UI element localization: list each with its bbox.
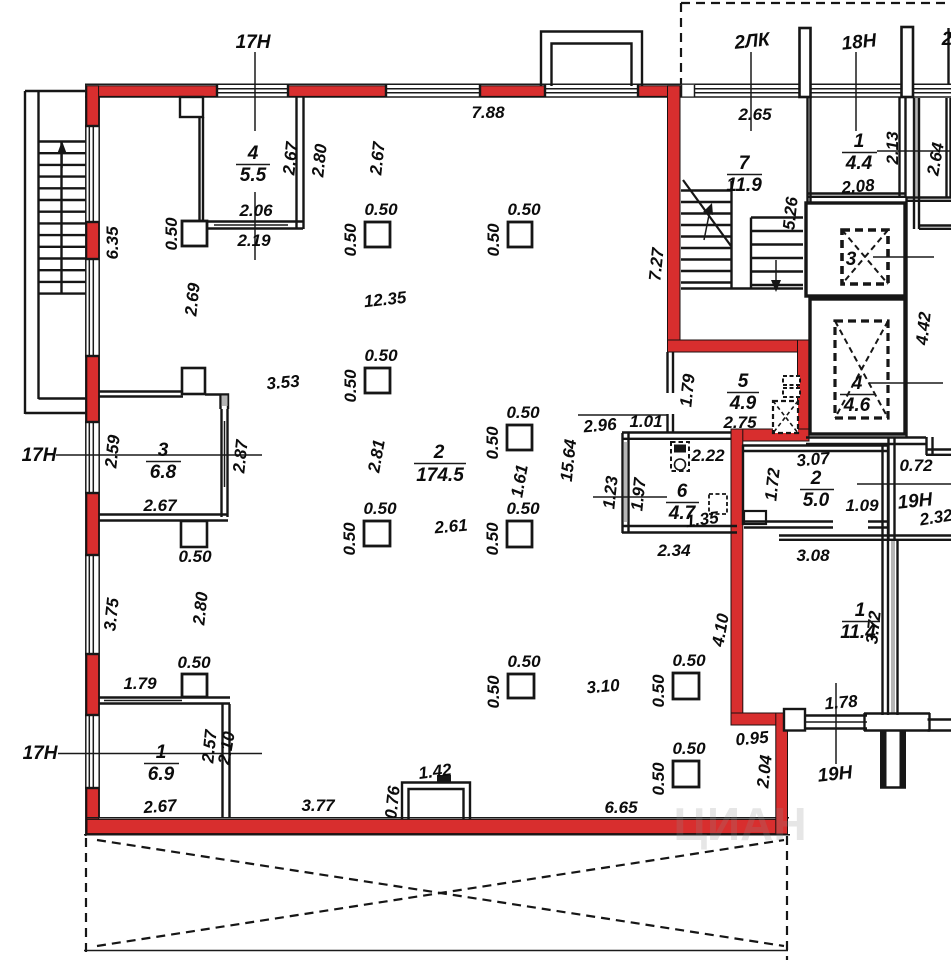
svg-text:2.04: 2.04 <box>753 753 776 789</box>
room 7 down arrow <box>771 260 781 292</box>
svg-text:1.79: 1.79 <box>123 674 157 693</box>
dashed site boundary top right <box>681 3 951 85</box>
svg-text:2.61: 2.61 <box>433 516 469 538</box>
bottom exterior wall <box>84 818 790 835</box>
svg-text:4.9: 4.9 <box>729 393 757 414</box>
svg-text:0.50: 0.50 <box>506 499 540 518</box>
svg-text:2.13: 2.13 <box>883 131 902 166</box>
electric panel dashed <box>773 376 800 433</box>
balcony box top center <box>541 32 642 87</box>
svg-text:0.50: 0.50 <box>483 426 502 460</box>
room 6 appliance <box>709 494 727 514</box>
svg-text:7.88: 7.88 <box>471 103 505 122</box>
room 5 (4.9) walls <box>668 352 674 432</box>
svg-text:5.0: 5.0 <box>803 490 830 511</box>
svg-text:2.22: 2.22 <box>690 446 725 465</box>
svg-text:1.23: 1.23 <box>599 474 621 509</box>
svg-text:1.09: 1.09 <box>845 496 879 515</box>
svg-text:4.4: 4.4 <box>845 153 873 174</box>
svg-text:2.19: 2.19 <box>236 231 271 250</box>
svg-text:2: 2 <box>810 468 822 489</box>
svg-text:17Н: 17Н <box>22 445 58 466</box>
svg-text:ЦИАН: ЦИАН <box>673 798 806 850</box>
svg-text:1.97: 1.97 <box>627 475 650 511</box>
svg-text:0.50: 0.50 <box>649 674 668 708</box>
svg-text:2.67: 2.67 <box>366 139 389 176</box>
svg-text:6.8: 6.8 <box>150 462 177 483</box>
svg-text:0.50: 0.50 <box>341 369 360 403</box>
svg-text:5.5: 5.5 <box>240 165 267 186</box>
corridor walls top right <box>906 98 951 229</box>
svg-text:7: 7 <box>739 153 751 174</box>
left wall ticks <box>85 126 100 788</box>
watermark <box>673 798 806 850</box>
svg-text:2.87: 2.87 <box>229 437 252 474</box>
room 3 (6.8) walls <box>99 368 228 547</box>
room 7 up arrow <box>703 203 713 240</box>
room 6 vent shaft <box>671 442 689 471</box>
svg-text:1: 1 <box>855 600 866 621</box>
svg-text:11.9: 11.9 <box>726 175 762 196</box>
top wall ticks <box>217 84 638 97</box>
top wall window lines <box>217 89 951 93</box>
vent box 1.42 on bottom wall <box>402 775 470 819</box>
dimension labels rotated <box>100 131 948 820</box>
leader lines <box>56 52 951 764</box>
svg-text:2.69: 2.69 <box>181 281 204 317</box>
room 6 (4.7) walls <box>622 433 737 534</box>
svg-text:2.34: 2.34 <box>656 541 691 560</box>
svg-text:174.5: 174.5 <box>416 465 464 486</box>
svg-text:0.50: 0.50 <box>364 200 398 219</box>
svg-text:1.78: 1.78 <box>824 692 859 714</box>
svg-text:17Н: 17Н <box>23 743 59 764</box>
svg-text:0.50: 0.50 <box>506 403 540 422</box>
svg-text:1.72: 1.72 <box>761 466 783 501</box>
0.50 labels at squares <box>177 200 706 796</box>
balcony dashed cross bottom <box>84 836 788 960</box>
svg-text:3.08: 3.08 <box>796 546 830 565</box>
svg-text:0.95: 0.95 <box>735 728 770 750</box>
staircase up arrow <box>58 141 67 168</box>
svg-text:6.9: 6.9 <box>148 764 175 785</box>
svg-text:2.96: 2.96 <box>582 415 618 437</box>
svg-text:0.50: 0.50 <box>649 762 668 796</box>
svg-text:0.72: 0.72 <box>899 456 933 475</box>
svg-text:11.4: 11.4 <box>840 622 876 643</box>
top wall red segments <box>87 86 681 97</box>
door gap top right of red corner <box>682 85 695 97</box>
svg-text:18Н: 18Н <box>841 30 879 55</box>
top exterior wall base lines <box>85 84 951 97</box>
svg-text:2.80: 2.80 <box>189 590 212 626</box>
svg-text:2: 2 <box>433 442 445 463</box>
staircase shaft left exterior <box>25 91 87 414</box>
svg-text:19Н: 19Н <box>897 489 935 514</box>
svg-text:0.50: 0.50 <box>341 223 360 257</box>
svg-text:3: 3 <box>158 440 169 461</box>
svg-text:4.6: 4.6 <box>843 395 871 416</box>
svg-text:0.50: 0.50 <box>672 739 706 758</box>
top wall piers <box>800 27 949 97</box>
svg-text:1.42: 1.42 <box>417 760 453 783</box>
svg-text:0.76: 0.76 <box>381 784 403 819</box>
svg-text:3.75: 3.75 <box>100 596 122 631</box>
left wall window lines <box>89 126 93 788</box>
svg-text:0.50: 0.50 <box>178 547 212 566</box>
corridor wall 19N mid <box>779 536 951 716</box>
svg-text:2ЛК: 2ЛК <box>732 29 772 54</box>
svg-text:2.75: 2.75 <box>722 413 757 432</box>
svg-text:5: 5 <box>738 371 749 392</box>
svg-text:19Н: 19Н <box>817 762 855 787</box>
svg-text:1.79: 1.79 <box>676 372 698 407</box>
svg-text:0.50: 0.50 <box>364 346 398 365</box>
red boundary right side path <box>668 86 810 834</box>
elevator 3 <box>806 203 934 296</box>
svg-text:5.26: 5.26 <box>779 195 801 230</box>
svg-text:0.50: 0.50 <box>340 522 359 556</box>
svg-text:0.50: 0.50 <box>672 651 706 670</box>
zone labels <box>22 29 951 787</box>
svg-text:3.10: 3.10 <box>586 676 621 698</box>
room 1 (11.4) bottom wall with door and window <box>784 709 867 731</box>
room 7 stairwell walls <box>808 97 811 203</box>
left wall red segments <box>87 86 99 834</box>
svg-text:2.67: 2.67 <box>142 496 178 515</box>
svg-text:0.50: 0.50 <box>162 217 181 251</box>
wall right of elevators <box>905 197 907 437</box>
svg-text:4.42: 4.42 <box>912 310 935 346</box>
svg-text:0.50: 0.50 <box>484 223 503 257</box>
svg-text:17Н: 17Н <box>236 32 272 53</box>
svg-text:0.50: 0.50 <box>363 499 397 518</box>
svg-text:6: 6 <box>677 481 688 502</box>
svg-text:2.08: 2.08 <box>840 176 876 198</box>
svg-text:0.50: 0.50 <box>507 200 541 219</box>
staircase steps <box>39 142 87 294</box>
svg-text:2.65: 2.65 <box>737 105 772 124</box>
svg-text:4: 4 <box>851 373 863 394</box>
room 1 (6.9) walls <box>99 698 230 819</box>
room 2 (5.0) walls <box>742 445 888 715</box>
svg-text:6.35: 6.35 <box>103 226 122 260</box>
elevator 4 <box>810 299 943 434</box>
svg-text:4.7: 4.7 <box>668 503 697 524</box>
svg-text:4: 4 <box>247 143 259 164</box>
room 7 stairs <box>681 180 803 289</box>
dimension labels horizontal <box>123 103 951 817</box>
svg-text:3.53: 3.53 <box>266 372 301 394</box>
svg-text:7.27: 7.27 <box>645 245 668 281</box>
svg-text:0.50: 0.50 <box>483 522 502 556</box>
room 1 (4.4) walls <box>807 97 906 197</box>
wall below elevators <box>806 437 951 540</box>
svg-text:6.65: 6.65 <box>604 798 638 817</box>
left exterior wall base lines <box>86 84 99 836</box>
svg-text:2.80: 2.80 <box>308 142 331 178</box>
svg-text:2.59: 2.59 <box>101 433 124 469</box>
svg-text:1.01: 1.01 <box>629 412 662 431</box>
svg-text:3: 3 <box>846 249 857 270</box>
svg-text:0.50: 0.50 <box>507 652 541 671</box>
column squares 0.50 <box>182 221 699 787</box>
svg-text:2.06: 2.06 <box>238 201 273 220</box>
svg-text:1: 1 <box>854 131 865 152</box>
room number fractions <box>144 131 880 785</box>
T-wall bottom right <box>864 713 951 788</box>
svg-text:2.67: 2.67 <box>142 796 179 817</box>
svg-text:0.50: 0.50 <box>177 653 211 672</box>
svg-text:3.77: 3.77 <box>301 796 336 815</box>
room 4 (5.5) walls <box>180 97 304 229</box>
svg-text:2.67: 2.67 <box>279 139 302 176</box>
svg-text:0.50: 0.50 <box>484 675 503 709</box>
svg-text:1: 1 <box>156 742 167 763</box>
svg-text:2: 2 <box>941 29 951 50</box>
